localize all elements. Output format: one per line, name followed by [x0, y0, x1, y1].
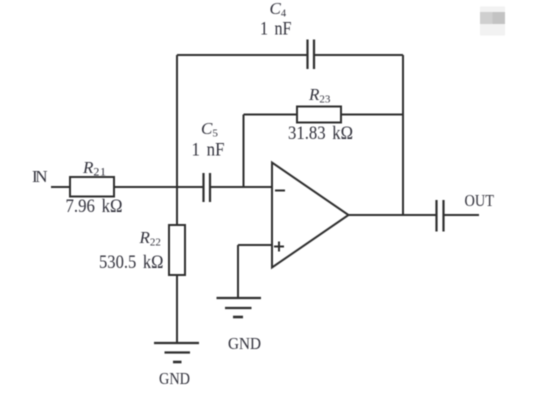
capacitor output coupling: [437, 200, 444, 232]
wire node A down to R22: [176, 187, 178, 225]
svg-text:1 nF: 1 nF: [192, 140, 225, 161]
svg-text:C4: C4: [270, 0, 287, 20]
svg-text:7.96 kΩ: 7.96 kΩ: [66, 196, 123, 217]
svg-text:R22: R22: [139, 228, 161, 249]
svg-text:IN: IN: [32, 167, 48, 186]
watermark square: [480, 7, 505, 36]
ground at op-amp positive input: [217, 298, 262, 317]
wire riser to R23: [244, 114, 298, 116]
svg-text:530.5 kΩ: 530.5 kΩ: [99, 252, 164, 273]
op-amp U1: [272, 163, 349, 268]
capacitor C4: [308, 40, 315, 70]
wire node A to R23 loop riser: [243, 115, 245, 188]
wire C5 to op-amp inverting input: [210, 186, 272, 188]
svg-text:R21: R21: [82, 158, 107, 179]
wire non-inverting input down to ground: [237, 245, 239, 298]
svg-text:31.83 kΩ: 31.83 kΩ: [288, 123, 353, 144]
op-amp inverting pin mark: [275, 190, 285, 192]
resistor R23: [297, 107, 341, 123]
svg-text:OUT: OUT: [465, 191, 495, 210]
svg-text:GND: GND: [159, 369, 190, 388]
capacitor C5: [204, 173, 211, 202]
svg-text:1 nF: 1 nF: [260, 19, 292, 40]
resistor R21: [70, 177, 114, 197]
wire right leg down to output node: [402, 55, 404, 215]
wire R23 to right leg: [341, 114, 403, 116]
wire OUT lead: [444, 214, 480, 216]
wire R21 to C5 left plate: [114, 186, 203, 188]
wire C4 to right leg: [314, 54, 403, 56]
svg-text:C5: C5: [201, 119, 218, 140]
resistor R22: [169, 225, 185, 275]
wire op-amp output: [349, 214, 437, 216]
svg-text:R23: R23: [308, 85, 331, 106]
svg-text:GND: GND: [228, 334, 261, 353]
ground under R22: [154, 343, 199, 362]
wire non-inverting input: [238, 244, 272, 246]
wire node A up to C4 loop: [176, 55, 178, 187]
wire top left to C4: [177, 54, 307, 56]
wire IN lead: [51, 186, 70, 188]
op-amp non-inverting pin mark: [274, 242, 284, 252]
wire R22 to ground: [176, 275, 178, 343]
